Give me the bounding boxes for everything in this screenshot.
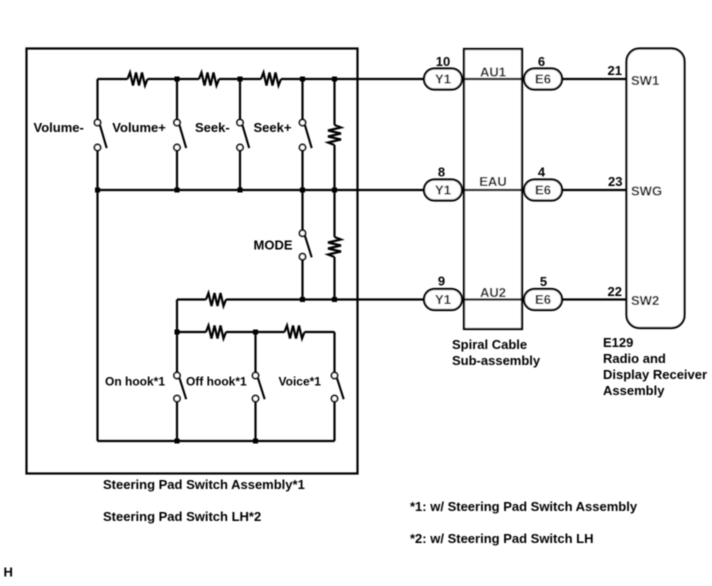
- wire: second bus / EAU row (y=190): [98, 189, 627, 191]
- svg-text:E6: E6: [535, 72, 551, 87]
- svg-text:*1: w/ Steering Pad Switch Ass: *1: w/ Steering Pad Switch Assembly: [410, 499, 638, 514]
- junction dot at (240,190): [238, 188, 243, 193]
- connector Y1 pin 8: [424, 180, 462, 201]
- pin number 4: [538, 165, 546, 180]
- svg-text:Seek-: Seek-: [195, 120, 230, 135]
- outer box: Steering Pad Switch Assembly: [27, 49, 358, 474]
- junction dot at (255.5,441): [253, 439, 258, 444]
- junction dot at (255.5,332): [253, 330, 258, 335]
- pin number 9: [438, 274, 445, 289]
- svg-text:Sub-assembly: Sub-assembly: [452, 353, 541, 368]
- box: E129 Radio and Display Receiver Assembly: [627, 49, 685, 329]
- caption Steering Pad Switch Assembly*1: [103, 477, 305, 492]
- resistor between Volume+ and Seek- columns (top bus): [199, 73, 219, 86]
- page index H: [4, 565, 13, 580]
- svg-text:Volume-: Volume-: [34, 120, 84, 135]
- resistor vertical upper (right column): [328, 79, 341, 190]
- switch Seek+: [299, 79, 311, 190]
- connector Y1 pin 10: [424, 69, 462, 90]
- junction dot at (302.5,79): [300, 77, 305, 82]
- caption Spiral Cable: [452, 337, 527, 352]
- svg-text:9: 9: [438, 274, 445, 289]
- connector Y1 pin 9: [424, 289, 462, 310]
- pin number 6: [538, 54, 545, 69]
- label On hook*1: [105, 375, 165, 389]
- label Off hook*1: [186, 375, 247, 389]
- junction dot at (177,332): [175, 330, 180, 335]
- pin label SW2: [631, 293, 659, 308]
- svg-text:AU2: AU2: [480, 285, 506, 300]
- pin label SWG: [631, 184, 662, 199]
- box: Spiral Cable Sub-assembly: [464, 49, 522, 329]
- wire: top bus / AU1 row (y=79): [98, 78, 627, 80]
- svg-text:8: 8: [438, 165, 445, 180]
- resistor between Seek- and Seek+ columns (top bus): [261, 73, 281, 86]
- svg-text:21: 21: [608, 63, 622, 78]
- wire: AU2 row (y=299.5): [177, 298, 627, 300]
- label Seek-: [195, 120, 230, 135]
- svg-text:Spiral Cable: Spiral Cable: [452, 337, 527, 352]
- svg-text:Y1: Y1: [435, 183, 451, 198]
- svg-text:SWG: SWG: [631, 184, 662, 199]
- label Voice*1: [279, 375, 322, 389]
- connector E6 pin 4: [524, 180, 562, 201]
- caption Sub-assembly: [452, 353, 541, 368]
- svg-text:Voice*1: Voice*1: [279, 375, 322, 389]
- svg-text:MODE: MODE: [254, 238, 293, 253]
- pin number 5: [540, 274, 547, 289]
- svg-text:EAU: EAU: [479, 174, 506, 189]
- junction dot at (177,190): [175, 188, 180, 193]
- wire: bottom bus (y=441): [98, 440, 335, 442]
- net label EAU: [479, 174, 506, 189]
- junction dot at (177,79): [175, 77, 180, 82]
- switch Voice*1: [331, 332, 343, 441]
- svg-text:E129: E129: [603, 335, 633, 350]
- note *1: [410, 499, 638, 514]
- switch Off hook*1: [252, 332, 264, 441]
- caption Assembly: [603, 383, 665, 398]
- svg-text:E6: E6: [535, 292, 551, 307]
- junction dot at (334.5,190): [332, 188, 337, 193]
- label Seek+: [254, 120, 292, 135]
- switch On hook*1: [174, 372, 186, 441]
- junction dot at (97.5,190): [95, 188, 100, 193]
- svg-text:Radio and: Radio and: [603, 351, 666, 366]
- switch Volume-: [94, 79, 106, 190]
- svg-text:*2: w/ Steering Pad Switch LH: *2: w/ Steering Pad Switch LH: [410, 531, 593, 546]
- svg-text:Y1: Y1: [435, 292, 451, 307]
- svg-text:Y1: Y1: [435, 72, 451, 87]
- resistor between On hook and Off hook columns: [206, 326, 226, 339]
- pin number 21: [608, 63, 622, 78]
- caption Display Receiver: [603, 367, 707, 382]
- svg-text:SW2: SW2: [631, 293, 659, 308]
- junction dot at (177,441): [175, 439, 180, 444]
- svg-text:On hook*1: On hook*1: [105, 375, 165, 389]
- svg-text:22: 22: [608, 284, 622, 299]
- resistor vertical lower (right column, MODE row): [328, 190, 341, 300]
- svg-text:6: 6: [538, 54, 545, 69]
- connector E6 pin 6: [524, 69, 562, 90]
- resistor between Volume- and Volume+ columns (top bus): [128, 73, 148, 86]
- junction dot at (334.5,299.5): [332, 297, 337, 302]
- svg-text:Seek+: Seek+: [254, 120, 292, 135]
- svg-text:23: 23: [608, 174, 622, 189]
- junction dot at (302.5,190): [300, 188, 305, 193]
- junction dot at (334.5,79): [332, 77, 337, 82]
- svg-text:AU1: AU1: [480, 65, 506, 80]
- pin number 10: [436, 54, 450, 69]
- resistor on AU2 row wire: [206, 293, 226, 306]
- pin label SW1: [631, 73, 659, 88]
- pin number 22: [608, 284, 622, 299]
- junction dot at (240,79): [238, 77, 243, 82]
- svg-text:Steering Pad Switch Assembly*1: Steering Pad Switch Assembly*1: [103, 477, 305, 492]
- junction dot at (302.5,299.5): [300, 297, 305, 302]
- wire: On hook column from AU2 row down through y=332 bus: [176, 300, 178, 373]
- svg-text:Assembly: Assembly: [603, 383, 665, 398]
- svg-text:E6: E6: [535, 183, 551, 198]
- svg-text:Steering Pad Switch LH*2: Steering Pad Switch LH*2: [103, 509, 261, 524]
- pin number 23: [608, 174, 622, 189]
- resistor between Off hook and Voice columns: [285, 326, 305, 339]
- connector E6 pin 5: [524, 289, 562, 310]
- label Volume-: [34, 120, 84, 135]
- switch Seek-: [237, 79, 249, 190]
- label Volume+: [112, 120, 166, 135]
- wire: left column from second bus down to bottom bus: [96, 190, 98, 441]
- svg-text:H: H: [4, 565, 13, 580]
- svg-text:4: 4: [538, 165, 546, 180]
- label MODE: [254, 238, 293, 253]
- switch MODE: [299, 190, 311, 300]
- svg-text:Off hook*1: Off hook*1: [186, 375, 247, 389]
- caption Radio and: [603, 351, 666, 366]
- caption Steering Pad Switch LH*2: [103, 509, 261, 524]
- caption E129: [603, 335, 633, 350]
- svg-text:SW1: SW1: [631, 73, 659, 88]
- note *2: [410, 531, 593, 546]
- svg-text:Display Receiver: Display Receiver: [603, 367, 707, 382]
- switch Volume+: [174, 79, 186, 190]
- svg-text:10: 10: [436, 54, 450, 69]
- wire: phone-switch bus (y=332): [177, 331, 335, 333]
- net label AU2: [480, 285, 506, 300]
- pin number 8: [438, 165, 445, 180]
- net label AU1: [480, 65, 506, 80]
- svg-text:5: 5: [540, 274, 547, 289]
- svg-text:Volume+: Volume+: [112, 120, 166, 135]
